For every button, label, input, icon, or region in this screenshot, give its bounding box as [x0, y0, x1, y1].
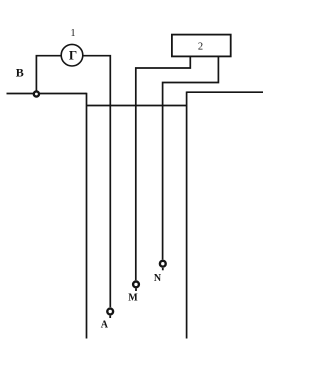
svg-text:M: M: [128, 293, 138, 304]
borehole mouth bottom line: [87, 105, 187, 107]
svg-text:2: 2: [198, 41, 203, 52]
node A label: [101, 319, 109, 330]
svg-text:1: 1: [71, 28, 76, 39]
node M label: [128, 293, 138, 304]
measuring unit 2 box: [172, 35, 231, 57]
electrode N tail: [162, 268, 164, 271]
wire from electrode B to generator 1: [36, 56, 61, 91]
svg-text:N: N: [154, 273, 162, 284]
svg-text:A: A: [101, 319, 109, 330]
electrode A: [107, 309, 113, 315]
borehole right wall: [186, 92, 188, 339]
label 2: [198, 41, 203, 52]
electrode B: [34, 91, 39, 96]
borehole left wall: [86, 93, 88, 339]
ground surface line right: [187, 91, 263, 93]
electrode M: [133, 282, 139, 288]
node B label: [16, 66, 24, 80]
wire from unit 2 left terminal down to electrode M: [136, 56, 191, 280]
node N label: [154, 273, 162, 284]
electrode A tail: [109, 316, 111, 318]
electrode M tail: [135, 289, 137, 292]
svg-text:B: B: [16, 66, 24, 80]
label 1: [71, 28, 76, 39]
svg-text:Г: Г: [69, 48, 77, 63]
wire from generator 1 down to electrode A: [83, 56, 111, 308]
electrode N: [160, 261, 166, 267]
generator U1 circle: [61, 44, 83, 66]
wire from unit 2 right terminal down to electrode N: [163, 56, 219, 259]
ground surface line left: [7, 93, 87, 95]
generator U1 letter Г: [69, 48, 77, 63]
